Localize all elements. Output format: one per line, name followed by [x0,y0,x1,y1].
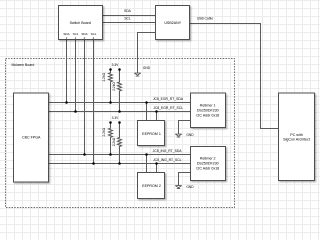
svg-text:Retimer 1: Retimer 1 [200,104,216,108]
svg-text:2.2kΩ: 2.2kΩ [102,127,106,136]
svg-text:Mclaren Board: Mclaren Board [12,63,35,67]
svg-text:JC8_EGR_RT_SDA: JC8_EGR_RT_SDA [153,97,184,101]
svg-text:JC8_ING_RT_SCL: JC8_ING_RT_SCL [153,158,182,162]
svg-text:GND: GND [186,185,194,189]
svg-text:2.2kΩ: 2.2kΩ [102,72,106,81]
svg-text:USB2ANY: USB2ANY [164,21,181,25]
svg-text:SDA: SDA [81,32,87,36]
svg-text:JC8_EGR_RT_SCL: JC8_EGR_RT_SCL [153,106,183,110]
svg-text:2.2kΩ: 2.2kΩ [112,137,116,146]
svg-text:3.3V: 3.3V [112,63,120,67]
svg-text:3.3V: 3.3V [112,116,120,120]
svg-text:PC with: PC with [290,133,302,137]
svg-text:DS250DF230: DS250DF230 [197,109,219,113]
svg-text:I2C Addr 0x18: I2C Addr 0x18 [196,167,219,171]
svg-text:SDA: SDA [124,9,132,13]
svg-text:EEPROM 2: EEPROM 2 [142,184,161,188]
svg-text:CBC FPGA: CBC FPGA [22,136,41,140]
svg-text:Retimer 2: Retimer 2 [200,157,216,161]
svg-text:SigCon Architect: SigCon Architect [283,137,310,141]
svg-text:SDA: SDA [63,32,69,36]
svg-text:SCL: SCL [91,32,97,36]
svg-text:EEPROM 1: EEPROM 1 [142,132,161,136]
svg-text:JC8_ING_RT_SDA: JC8_ING_RT_SDA [153,149,183,153]
svg-text:I2C Addr 0x18: I2C Addr 0x18 [196,114,219,118]
svg-text:2.2kΩ: 2.2kΩ [112,82,116,91]
svg-text:GND: GND [186,133,194,137]
svg-text:SCL: SCL [124,16,131,20]
svg-text:Switch Board: Switch Board [70,21,91,25]
svg-text:DS250DF230: DS250DF230 [197,162,219,166]
svg-text:GND: GND [143,66,151,70]
svg-text:USB Cable: USB Cable [197,17,213,21]
svg-text:SCL: SCL [73,32,79,36]
